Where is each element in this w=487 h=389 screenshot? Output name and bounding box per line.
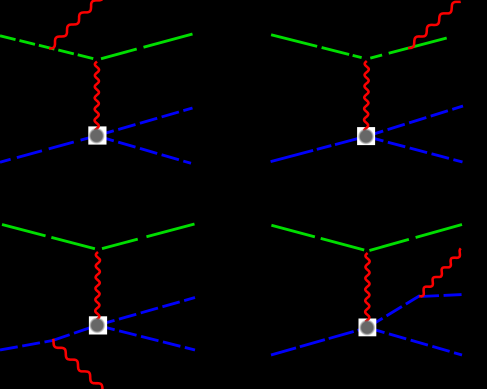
vertex blob gray circle, TR <box>358 128 374 144</box>
incoming green dashed line (meson), BL <box>2 225 98 250</box>
incoming blue dashed line (pion), TL <box>0 136 97 162</box>
vertex blob gray circle, TL <box>88 128 104 144</box>
outgoing blue dashed line lower (pion), BL <box>97 325 195 350</box>
outgoing blue dashed line lower (pion), BR <box>367 328 462 355</box>
radiated photon (red wavy) from incoming green line, TL <box>49 0 103 48</box>
photon propagator (red wavy, vertical), TL <box>95 62 99 131</box>
incoming green dashed line (meson), TL <box>0 36 97 60</box>
incoming blue dashed line inner segment after photon kink, BL <box>53 325 98 340</box>
radiated photon (red wavy) from outgoing blue line, BR <box>419 248 461 296</box>
vertex blob gray circle, BL <box>89 317 105 333</box>
photon propagator (red wavy, vertical), BL <box>95 252 100 320</box>
outgoing blue dashed line upper (pion), TL <box>97 108 193 136</box>
vertex blob white square mask, TR <box>357 127 375 145</box>
radiated photon (red wavy) from outgoing green line, TR <box>408 2 461 48</box>
outgoing green dashed line (meson), TR <box>367 34 462 59</box>
photon propagator (red wavy, vertical), BR <box>365 253 369 322</box>
outgoing green dashed line (meson), TL <box>101 34 193 59</box>
vertex blob white square mask, BR <box>359 319 377 337</box>
photon propagator (red wavy, vertical), TR <box>364 61 369 131</box>
incoming green dashed line (meson), BR <box>271 225 368 251</box>
outgoing blue dashed line upper (pion), TR <box>366 106 463 136</box>
outgoing green dashed line (meson), BR <box>369 225 462 251</box>
incoming green dashed line (meson), TR <box>271 35 367 59</box>
vertex blob gray circle, BR <box>359 319 375 335</box>
outgoing blue dashed line upper (pion), BL <box>97 298 195 326</box>
incoming blue dashed line (pion), BR <box>271 328 367 355</box>
incoming blue dashed line outer segment (pion), BL <box>0 341 53 351</box>
outgoing green dashed line (meson), BL <box>102 224 195 249</box>
vertex blob white square mask, BL <box>89 316 107 334</box>
outgoing blue dashed line upper after photon kink, BR <box>421 295 462 297</box>
vertex blob white square mask, TL <box>88 126 106 144</box>
incoming blue dashed line (pion), TR <box>271 136 366 161</box>
outgoing blue dashed line upper steep segment (pion), BR <box>367 296 420 328</box>
outgoing blue dashed line lower (pion), TR <box>366 136 463 162</box>
outgoing blue dashed line lower (pion), TL <box>97 136 192 164</box>
radiated photon (red wavy) from incoming blue line, exits bottom, BL <box>53 339 109 389</box>
